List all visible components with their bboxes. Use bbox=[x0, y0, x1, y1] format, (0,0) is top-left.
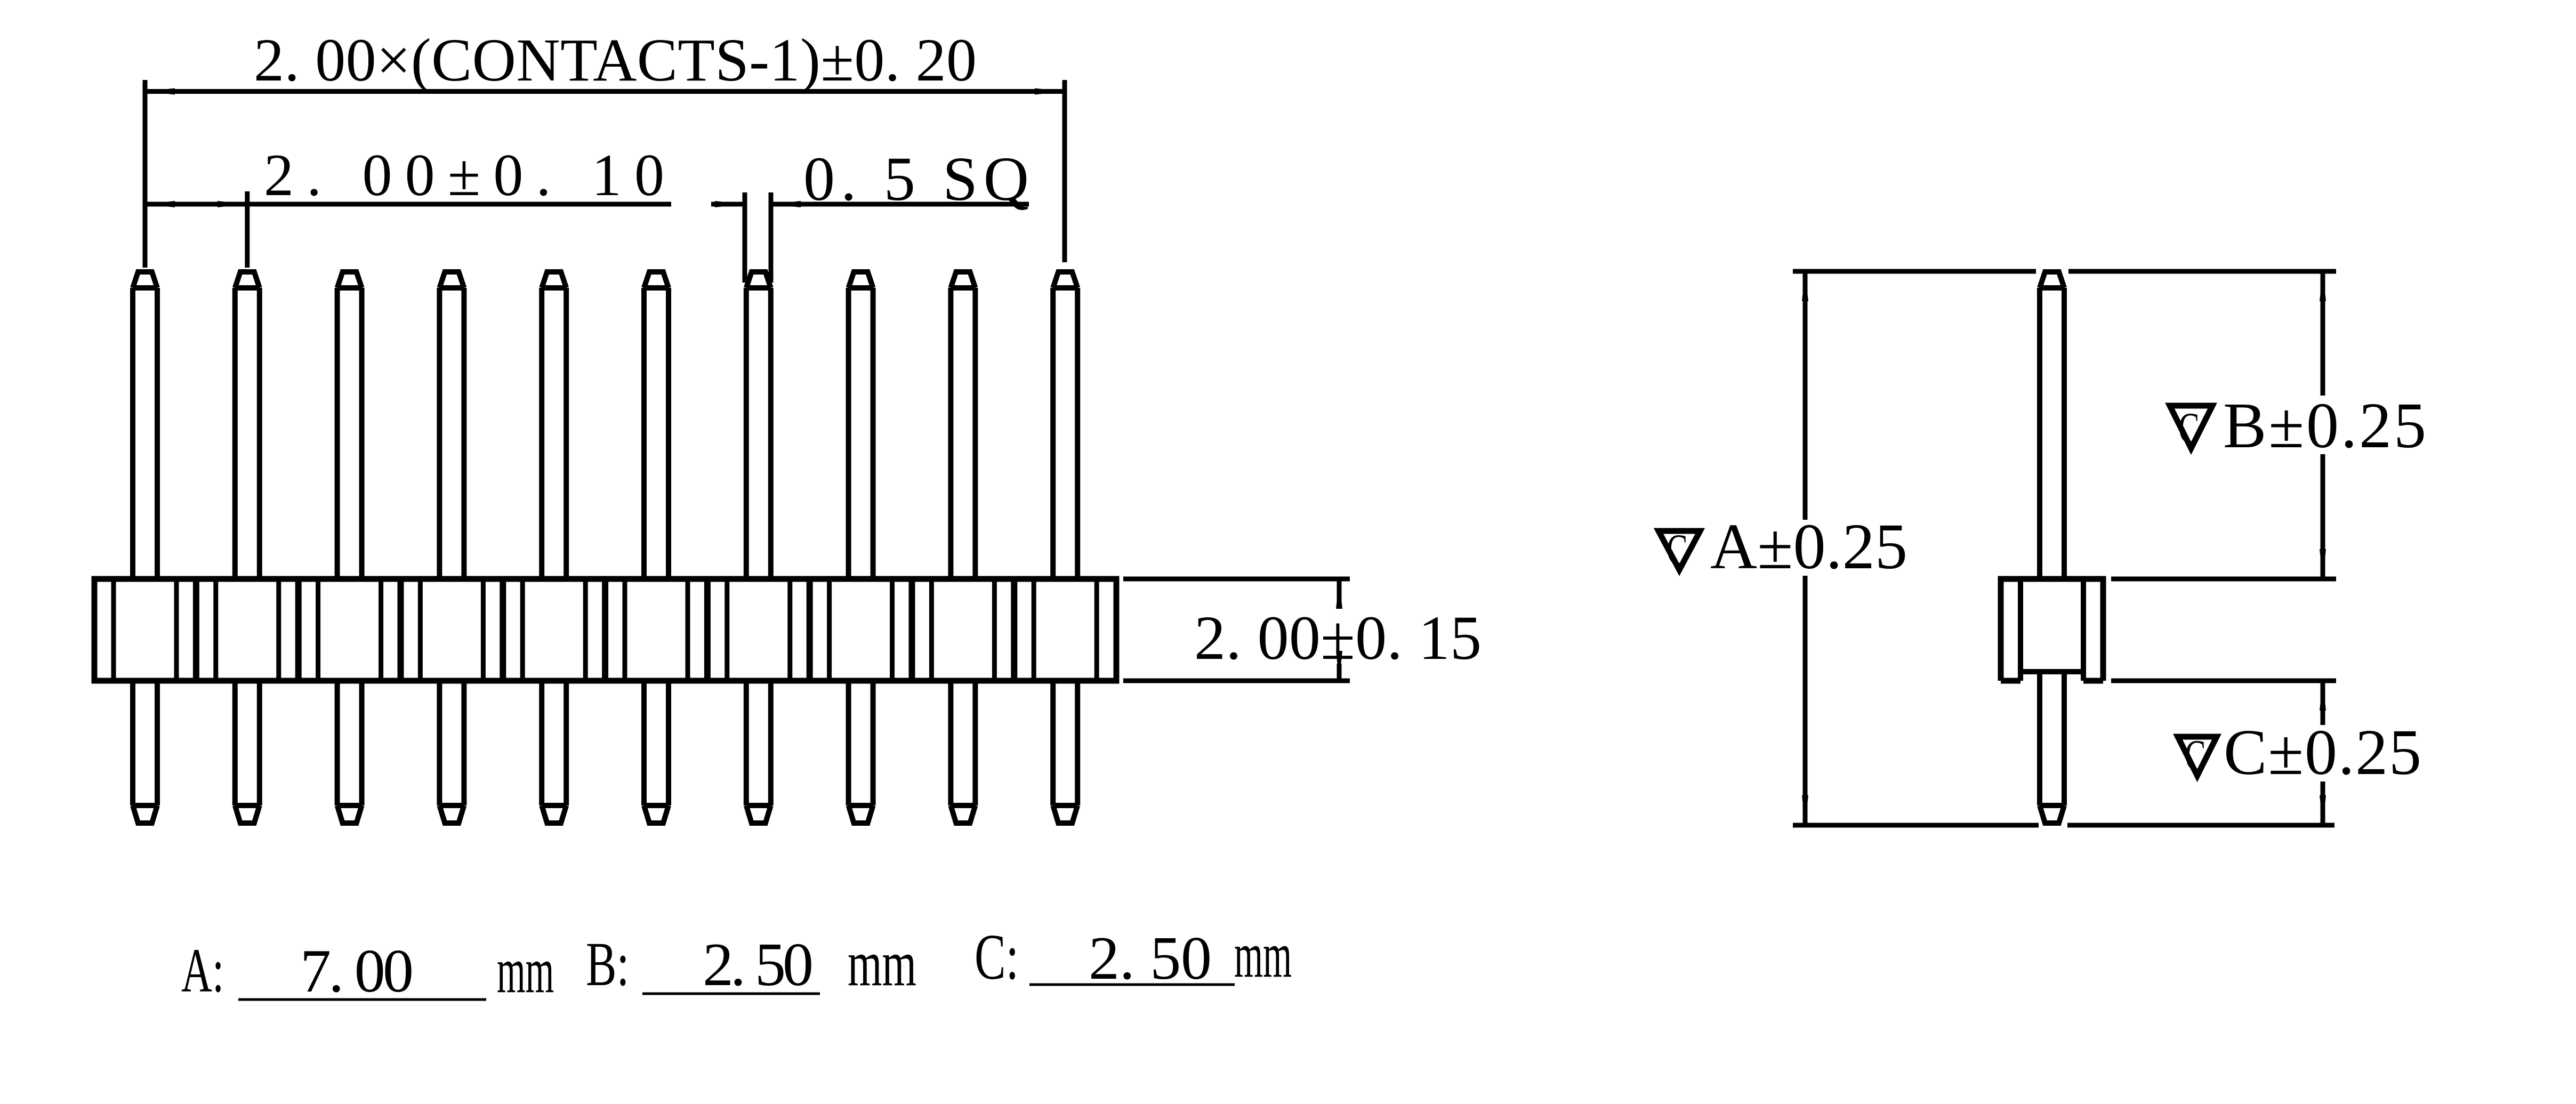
extension line C (body bottom) bbox=[2111, 679, 2336, 683]
svg-text:B±0.25: B±0.25 bbox=[2223, 390, 2426, 462]
pin 8 upper (front view) bbox=[849, 272, 873, 579]
body mid separator 9 bbox=[1011, 579, 1017, 681]
pin 9 upper (front view) bbox=[951, 272, 975, 579]
body cell separator lines, pin 5 bbox=[520, 579, 525, 681]
body mid separator 7 bbox=[807, 579, 813, 681]
svg-text:C: C bbox=[2178, 404, 2199, 453]
body cell separator lines, pin 10 bbox=[1032, 579, 1036, 681]
dimension line 2.00+-0.10 bbox=[145, 202, 671, 207]
svg-text:mm: mm bbox=[1234, 920, 1292, 991]
body mid separator 8 bbox=[909, 579, 915, 681]
svg-text:A:: A: bbox=[181, 936, 224, 1005]
svg-text:2. 00±0. 15: 2. 00±0. 15 bbox=[1194, 603, 1482, 673]
dimension line A bbox=[1803, 271, 1808, 520]
unit B mm bbox=[848, 927, 916, 1000]
extension line pin2 center bbox=[245, 191, 249, 268]
pin 2 lower (front view) bbox=[235, 681, 260, 823]
body cell separator lines, pin 7 bbox=[724, 579, 729, 681]
dimension line 2.00x(CONTACTS-1) bbox=[145, 89, 1065, 94]
pin 4 lower (front view) bbox=[439, 681, 464, 823]
pin 7 lower (front view) bbox=[746, 681, 771, 823]
side view body inner walls bbox=[2018, 579, 2023, 681]
side view top reference line bbox=[1793, 269, 2036, 274]
extension line body top right bbox=[1123, 577, 1350, 582]
pin 1 lower (front view) bbox=[133, 681, 157, 823]
extension line pin10 center bbox=[1062, 80, 1067, 262]
pin 6 upper (front view) bbox=[644, 272, 669, 579]
side view pin lower bbox=[2040, 672, 2064, 823]
finish triangle B bbox=[2170, 406, 2212, 448]
pin 6 lower (front view) bbox=[644, 681, 669, 823]
pin 4 upper (front view) bbox=[439, 272, 464, 579]
svg-text:mm: mm bbox=[848, 927, 916, 1000]
label B: bbox=[586, 930, 629, 999]
dimension line B bbox=[2321, 271, 2325, 396]
value A underline bbox=[238, 998, 486, 1001]
body cell separator lines, pin 3 bbox=[316, 579, 320, 681]
svg-text:A±0.25: A±0.25 bbox=[1710, 511, 1907, 583]
pin 10 upper (front view) bbox=[1053, 272, 1077, 579]
leader left 0.5SQ bbox=[711, 202, 745, 207]
body cell separator lines, pin 8 bbox=[827, 579, 832, 681]
pin 5 lower (front view) bbox=[542, 681, 566, 823]
svg-text:mm: mm bbox=[497, 935, 554, 1006]
extension lines pin7 sides bbox=[743, 192, 747, 283]
svg-text:C: C bbox=[1667, 526, 1687, 574]
body cell separator lines, pin 6 bbox=[623, 579, 627, 681]
dimension line body height bbox=[1337, 579, 1342, 605]
pin 3 lower (front view) bbox=[337, 681, 362, 823]
leader right 0.5SQ bbox=[771, 202, 1029, 207]
dimension line C bbox=[2321, 681, 2325, 725]
body cell separator lines, pin 1 bbox=[111, 579, 116, 681]
body mid separator 3 bbox=[398, 579, 404, 681]
pin 2 upper (front view) bbox=[235, 272, 260, 579]
side view body outline bbox=[2001, 579, 2103, 681]
svg-text:2. 50: 2. 50 bbox=[703, 931, 814, 999]
pin 7 upper (front view) bbox=[746, 272, 771, 579]
svg-text:2. 50: 2. 50 bbox=[1089, 924, 1212, 993]
svg-text:C:: C: bbox=[975, 921, 1019, 993]
pin 9 lower (front view) bbox=[951, 681, 975, 823]
finish triangle A bbox=[1659, 531, 1700, 570]
body cell separator lines, pin 9 bbox=[929, 579, 934, 681]
svg-text:7. 00: 7. 00 bbox=[300, 937, 414, 1005]
svg-text:B:: B: bbox=[586, 930, 629, 999]
extension line pin1 center bbox=[143, 80, 148, 268]
side view body central recess bottom bbox=[2020, 669, 2083, 674]
side view bottom reference line bbox=[1793, 823, 2039, 828]
value B underline bbox=[642, 993, 820, 995]
svg-text:C: C bbox=[2185, 731, 2205, 780]
extension line B (body top) bbox=[2111, 577, 2336, 582]
value C underline bbox=[1029, 984, 1235, 986]
pin 5 upper (front view) bbox=[542, 272, 566, 579]
finish triangle C bbox=[2178, 737, 2217, 776]
side view pin upper bbox=[2040, 272, 2064, 579]
pin 10 lower (front view) bbox=[1053, 681, 1077, 823]
body mid separator 1 bbox=[193, 579, 199, 681]
body mid separator 6 bbox=[704, 579, 711, 681]
insulator body outline (front view) bbox=[94, 579, 1116, 681]
body cell separator lines, pin 4 bbox=[418, 579, 423, 681]
unit C mm bbox=[1234, 920, 1292, 991]
body cell separator lines, pin 2 bbox=[213, 579, 218, 681]
unit A mm bbox=[497, 935, 554, 1006]
body mid separator 5 bbox=[602, 579, 608, 681]
body mid separator 4 bbox=[500, 579, 506, 681]
pin 3 upper (front view) bbox=[337, 272, 362, 579]
svg-text:2. 00×(CONTACTS-1)±0. 20: 2. 00×(CONTACTS-1)±0. 20 bbox=[254, 26, 977, 94]
extension line body bottom right bbox=[1123, 679, 1350, 683]
body mid separator 2 bbox=[295, 579, 302, 681]
pin 8 lower (front view) bbox=[849, 681, 873, 823]
svg-text:C±0.25: C±0.25 bbox=[2224, 716, 2421, 788]
label A: bbox=[181, 936, 224, 1005]
label C: bbox=[975, 921, 1019, 993]
pin 1 upper (front view) bbox=[133, 272, 157, 579]
